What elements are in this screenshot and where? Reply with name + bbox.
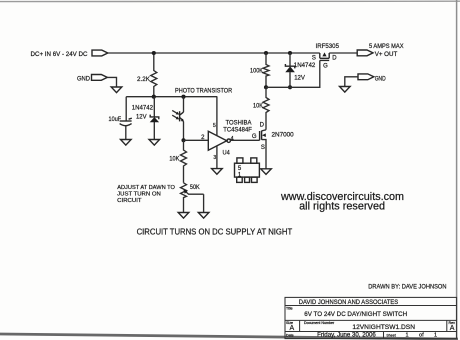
- ground pot bottom: [178, 213, 189, 219]
- svg-text:JUST TURN ON: JUST TURN ON: [117, 192, 161, 198]
- svg-text:12V: 12V: [136, 114, 147, 121]
- resistor 2.2K: [151, 53, 157, 97]
- svg-text:10K: 10K: [169, 156, 180, 163]
- frame (decorative): [0, 0, 460, 2]
- svg-text:U4: U4: [223, 149, 231, 156]
- svg-text:1: 1: [406, 333, 409, 339]
- svg-text:GND: GND: [77, 75, 90, 82]
- svg-text:4: 4: [230, 137, 234, 143]
- resistor 10K upper: [263, 87, 269, 130]
- title block: [285, 297, 457, 338]
- node junction at photo transistor: [181, 95, 185, 99]
- port DC+ IN connector: [92, 50, 108, 56]
- ground output: [340, 87, 351, 93]
- ground inverter: [212, 169, 223, 175]
- svg-text:CIRCUIT: CIRCUIT: [117, 198, 142, 204]
- wire GND input to ground: [107, 77, 116, 87]
- ground GND input: [111, 87, 122, 93]
- svg-text:5: 5: [213, 123, 216, 129]
- node junction input: [181, 138, 185, 142]
- zener diode D1 1N4742: [153, 97, 155, 140]
- ground 2N7000 source: [261, 169, 272, 175]
- light arrow 1: [172, 110, 177, 113]
- svg-text:DAVID JOHNSON AND ASSOCIATES: DAVID JOHNSON AND ASSOCIATES: [299, 299, 399, 306]
- svg-text:10uF: 10uF: [109, 116, 122, 123]
- svg-text:1N4742: 1N4742: [132, 105, 154, 112]
- svg-text:D: D: [260, 123, 265, 129]
- package footprint SOT-23-5: [235, 163, 260, 177]
- photo transistor Q1: [183, 97, 185, 112]
- svg-text:A: A: [290, 325, 295, 332]
- svg-text:all rights reserved: all rights reserved: [299, 200, 385, 212]
- svg-text:3: 3: [213, 155, 216, 161]
- svg-text:Title: Title: [286, 307, 293, 311]
- svg-text:PHOTO TRANSISTOR: PHOTO TRANSISTOR: [175, 88, 232, 95]
- ground pot wiper: [198, 213, 209, 219]
- svg-text:Friday, June 30, 2006: Friday, June 30, 2006: [317, 333, 376, 339]
- wire node to inverter input: [184, 139, 209, 141]
- node junction rail 100K: [264, 51, 268, 55]
- node junction gate wire right: [288, 85, 292, 89]
- svg-text:G: G: [252, 134, 257, 140]
- pin 3 wire: [216, 146, 218, 169]
- wire gate bus: [266, 60, 320, 87]
- svg-text:2.2K: 2.2K: [137, 76, 151, 83]
- svg-text:1: 1: [434, 333, 437, 339]
- pin 5 wire: [216, 97, 218, 136]
- svg-text:100K: 100K: [250, 68, 264, 75]
- svg-text:50K: 50K: [190, 184, 200, 191]
- port GND input connector: [92, 75, 108, 81]
- svg-text:DC+ IN 6V - 24V DC: DC+ IN 6V - 24V DC: [31, 51, 88, 58]
- svg-text:TC4S484F: TC4S484F: [223, 127, 252, 134]
- svg-text:Document Number: Document Number: [304, 321, 335, 325]
- svg-text:S: S: [261, 145, 265, 151]
- svg-text:1N4742: 1N4742: [294, 62, 316, 69]
- node junction on rail at 2.2K: [152, 51, 156, 55]
- svg-text:CIRCUIT TURNS ON DC SUPPLY AT: CIRCUIT TURNS ON DC SUPPLY AT NIGHT: [137, 228, 293, 237]
- port GND output connector: [358, 74, 374, 80]
- svg-text:12VNIGHTSW1.DSN: 12VNIGHTSW1.DSN: [352, 324, 415, 331]
- wire mid node rail: [126, 96, 217, 98]
- svg-text:2N7000: 2N7000: [272, 131, 295, 138]
- svg-text:IRF5305: IRF5305: [316, 43, 340, 50]
- svg-text:ADJUST AT DAWN TO: ADJUST AT DAWN TO: [117, 185, 175, 191]
- node junction gate wire left: [264, 85, 268, 89]
- svg-text:12V: 12V: [294, 75, 305, 82]
- port V+ OUT connector: [357, 50, 373, 56]
- svg-text:of: of: [419, 333, 424, 339]
- svg-text:V+ OUT: V+ OUT: [375, 51, 398, 58]
- svg-text:TOSHIBA: TOSHIBA: [226, 120, 253, 127]
- node junction rail zener2: [288, 51, 292, 55]
- ground capacitor: [121, 140, 132, 146]
- svg-text:G: G: [323, 64, 328, 70]
- potentiometer wiper arrow: [185, 191, 204, 194]
- svg-text:GND: GND: [375, 75, 386, 82]
- svg-text:A: A: [450, 325, 455, 332]
- resistor 10K lower: [181, 140, 187, 183]
- capacitor C 10uF: [125, 97, 127, 121]
- light arrow 2: [172, 115, 177, 118]
- svg-text:5: 5: [238, 166, 242, 172]
- wire photo emitter to node: [183, 122, 185, 141]
- svg-text:S: S: [312, 55, 316, 61]
- svg-text:Date: Date: [286, 334, 294, 338]
- transistor Q2 2N7000: [262, 130, 266, 131]
- svg-text:5 AMPS MAX: 5 AMPS MAX: [369, 43, 404, 50]
- wire top rail: [108, 52, 357, 54]
- svg-text:Sheet: Sheet: [386, 334, 395, 338]
- potentiometer 50K: [181, 183, 187, 213]
- wire GND output: [345, 77, 358, 87]
- resistor 100K: [263, 53, 269, 87]
- node junction mid-left: [152, 95, 156, 99]
- svg-text:DRAWN BY: DAVE JOHNSON: DRAWN BY: DAVE JOHNSON: [368, 283, 446, 290]
- zener diode D2 1N4742: [289, 53, 291, 87]
- inverter U4 TC4S484F: [208, 131, 227, 150]
- svg-text:D: D: [332, 55, 337, 61]
- svg-text:6V TO 24V DC DAY/NIGHT SWITCH: 6V TO 24V DC DAY/NIGHT SWITCH: [304, 311, 407, 318]
- svg-text:10K: 10K: [253, 103, 264, 110]
- wire inverter output to 2N7000 gate: [230, 139, 259, 141]
- ground zener D1: [149, 140, 160, 146]
